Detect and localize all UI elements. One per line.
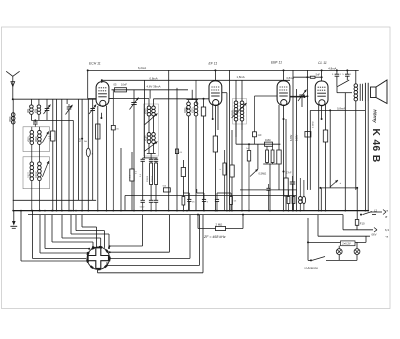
wire gang out right 1: [108, 215, 142, 248]
wire gang feed 2: [31, 211, 33, 259]
wire V3 pins: [278, 105, 280, 114]
wire V1 top cap: [101, 80, 103, 83]
coil T2 primary: [234, 80, 238, 121]
resistor R17 under V3: [277, 114, 281, 190]
capacitor C10 1nF: [253, 96, 263, 144]
coil L3a: [30, 127, 34, 152]
wire gang out right 4: [107, 215, 200, 266]
resistor R21 2M: [197, 214, 244, 231]
svg-text:30000: 30000: [147, 175, 149, 182]
wire V2 screen right: [222, 92, 227, 94]
IF transformer T1 can: [144, 104, 159, 156]
antenna symbol: [6, 71, 19, 99]
coil L5 osc primary: [186, 100, 191, 211]
wire osc bracket: [187, 99, 199, 101]
svg-text:(035): (035): [193, 107, 195, 113]
wire gang step 1: [40, 215, 89, 254]
wire gang step 6: [76, 215, 105, 248]
svg-text:0,35V: 0,35V: [296, 134, 299, 141]
trimmer T2 arrow: [232, 103, 247, 118]
svg-text:–a: –a: [385, 235, 389, 239]
wire V2 top: [214, 70, 216, 80]
trimmer C12: [298, 90, 307, 108]
resistor R7 cathode: [213, 105, 217, 210]
wire mid rail 0: [120, 148, 122, 211]
node antenna junction: [12, 98, 14, 100]
switch tone: [337, 80, 349, 87]
capacitor C8c: [154, 158, 158, 161]
wire top line 3: [112, 89, 189, 91]
wire V3 grid left: [255, 95, 278, 97]
wire T1 to V2 grid: [154, 98, 210, 100]
wire V2 grid left: [196, 99, 198, 105]
trimmer C2b: [66, 99, 73, 210]
capacitor C6 coupling: [115, 88, 127, 92]
svg-text:06V: 06V: [372, 232, 377, 236]
svg-text:0,3MΩ: 0,3MΩ: [313, 121, 315, 128]
wire bridge 3: [217, 192, 231, 194]
ground symbol: [10, 211, 17, 229]
wire under R9 R10: [263, 163, 276, 165]
resistor R3b: [175, 149, 182, 154]
wire mid rail 3: [176, 88, 178, 211]
coil L4b: [38, 152, 42, 211]
svg-text:U-Antenne: U-Antenne: [305, 266, 319, 270]
transformer T3 core: [359, 84, 361, 101]
resistor R20b: [302, 180, 305, 211]
capacitor C15 tone: [342, 69, 352, 80]
wire gang step 7: [82, 215, 97, 247]
diode load cluster: [284, 119, 295, 211]
resistor R16b bottom: [230, 193, 237, 211]
resistor R14: [181, 160, 185, 197]
wire gang step 4: [62, 215, 102, 248]
coil T1 tertiary: [147, 133, 151, 144]
wire V1 plate to T1: [109, 98, 149, 100]
svg-text:6,3: 6,3: [385, 228, 389, 232]
svg-text:1,8mA: 1,8mA: [237, 75, 245, 79]
wire left rail: [12, 99, 14, 210]
wire T1 bottoms: [148, 144, 150, 154]
svg-text:(039): (039): [145, 135, 148, 141]
resistor R8 1M: [265, 138, 273, 146]
trimmer C4 row3: [42, 161, 48, 177]
wire gang step 2: [45, 215, 90, 250]
wire top line 2: [101, 79, 290, 81]
wire V1 pins: [97, 106, 99, 211]
lamp label box: [341, 241, 356, 246]
capacitor C9a bottom: [149, 200, 153, 210]
resistor R18 grid: [305, 132, 311, 138]
terminal L2: [370, 208, 386, 214]
wire AVC line: [240, 189, 297, 191]
svg-text:(080): (080): [9, 116, 12, 122]
capacitor C10b: [246, 143, 251, 210]
resistor R1: [50, 99, 55, 210]
wire V4 top: [321, 70, 323, 80]
capacitor C14 tone: [332, 69, 342, 86]
capacitor C13: [293, 76, 322, 78]
tube V2 EF11: [209, 81, 222, 106]
IF transformer T2 can: [233, 99, 247, 125]
fuse F10: [355, 220, 365, 230]
capacitor C11b bottom: [202, 193, 209, 211]
resistor R14b bottom: [182, 197, 185, 211]
trimmer T1 arrow: [145, 114, 158, 125]
node rail 82 junction: [81, 138, 83, 140]
svg-text:1nF: 1nF: [258, 134, 263, 137]
switch mains: [360, 212, 376, 216]
svg-text:Hörny: Hörny: [372, 109, 377, 123]
wire bridge 1: [183, 192, 189, 194]
wire mid rail 5: [292, 70, 294, 210]
resistor R4: [150, 161, 153, 200]
lamp La2: [354, 242, 360, 260]
svg-text:1MΩ: 1MΩ: [265, 138, 271, 142]
svg-text:–a: –a: [385, 208, 389, 212]
capacitor C8b: [149, 158, 153, 161]
wire 6.3V line: [343, 215, 377, 232]
wire chassis bus upper: [14, 210, 369, 212]
resistor R6b on AVC line: [163, 186, 171, 192]
coil L7 heater: [299, 178, 303, 211]
resistor R20: [292, 196, 295, 211]
switch antenna: [308, 257, 325, 262]
svg-text:0,8mA: 0,8mA: [337, 106, 345, 110]
svg-text:6,2mA: 6,2mA: [138, 66, 146, 70]
wire left bottom link: [13, 199, 96, 201]
wire rail 56: [56, 99, 58, 210]
trimmer C7 osc: [130, 90, 139, 211]
coil T1 primary: [147, 99, 151, 116]
wire AVC line 2: [125, 195, 296, 197]
wire speaker return: [310, 109, 365, 111]
svg-text:EBF 11: EBF 11: [271, 61, 282, 65]
wire mid rail 1: [143, 80, 145, 158]
svg-text:27nF: 27nF: [286, 172, 292, 175]
svg-text:(082): (082): [28, 136, 31, 142]
svg-text:5nF: 5nF: [316, 73, 321, 76]
capacitor C11c bottom: [215, 193, 219, 211]
wire V3 plate link: [290, 95, 307, 97]
tube V4 ECL11: [315, 81, 328, 106]
coil L5 osc secondary: [194, 100, 198, 211]
resistor R16c: [223, 150, 226, 211]
coil L3b: [38, 127, 42, 152]
wire V4 pins: [321, 106, 323, 119]
svg-text:(036): (036): [185, 107, 187, 113]
wire gang out right 2: [109, 215, 170, 254]
trimmer C3: [89, 99, 96, 200]
capacitor C5 row1: [33, 122, 38, 127]
svg-text:F10: F10: [360, 222, 365, 226]
wire V3 top: [283, 70, 285, 81]
wire gang out bottom: [98, 215, 204, 273]
svg-text:ECH 11: ECH 11: [89, 62, 101, 66]
wire rail 73: [72, 120, 74, 210]
wire gang step 3: [52, 215, 94, 248]
resistor R16: [230, 130, 234, 211]
wire V3 right coupling: [290, 96, 302, 98]
wire W link: [319, 187, 358, 220]
speaker: [365, 80, 387, 104]
svg-text:gr: gr: [385, 215, 388, 219]
svg-text:ZF = 468 kHz: ZF = 468 kHz: [203, 235, 226, 239]
resistor R3c: [130, 152, 135, 211]
svg-text:10012: 10012: [36, 171, 38, 178]
wire rail 82: [81, 99, 83, 210]
svg-text:(040): (040): [145, 108, 148, 114]
tuning gang capacitor: [87, 247, 109, 269]
resistor R9: [266, 146, 269, 162]
tube V1 ECH11: [96, 82, 109, 107]
wire V4 cathode R: [323, 105, 327, 211]
trimmer C2 row2: [42, 131, 48, 142]
resistor R2 under V1: [96, 124, 100, 139]
trimmer C1: [44, 99, 51, 120]
svg-text:0,5MΩ: 0,5MΩ: [259, 171, 267, 175]
svg-text:4,8mA: 4,8mA: [328, 67, 336, 71]
svg-text:6,35V: 6,35V: [290, 134, 293, 141]
wire lamp bottom: [326, 259, 357, 261]
wire gang step 5: [71, 215, 110, 249]
svg-text:CL 11: CL 11: [318, 61, 327, 65]
svg-text:K 46 B: K 46 B: [370, 129, 381, 163]
wire rail 78: [78, 99, 80, 200]
svg-text:(08): (08): [27, 109, 30, 113]
wire bridge 2: [197, 192, 204, 194]
capacitor C8a: [141, 158, 145, 200]
svg-text:(083): (083): [35, 136, 38, 142]
resistor R5: [155, 161, 158, 200]
wire chassis bus lower: [28, 214, 343, 216]
svg-text:EF 11: EF 11: [209, 62, 218, 66]
wire V4 grid rail: [306, 70, 308, 189]
svg-text:10nF: 10nF: [121, 82, 127, 86]
wire V2 pins: [212, 105, 214, 120]
svg-text:2 MΩ: 2 MΩ: [216, 222, 223, 226]
wire V1 grid left: [88, 98, 96, 100]
wire detector line: [236, 143, 280, 145]
svg-text:4,6V·38mA: 4,6V·38mA: [147, 84, 161, 88]
wire row1 bottom: [31, 119, 73, 121]
wire T2 to detector: [235, 121, 237, 144]
svg-text:38000: 38000: [152, 175, 154, 182]
wire 0.6V line: [318, 215, 370, 237]
lamp La1: [336, 246, 342, 261]
capacitor C9b bottom: [154, 200, 158, 210]
svg-text:L2: L2: [374, 208, 378, 212]
wire IF1 bottom link: [143, 157, 158, 159]
coil L4a: [30, 152, 34, 211]
coil T1 quaternary: [152, 133, 156, 144]
coil T2 secondary: [240, 80, 244, 121]
svg-text:(033): (033): [231, 110, 235, 116]
potentiometer volume: [250, 144, 266, 176]
coil T1 secondary: [152, 99, 156, 116]
svg-text:0,8mA: 0,8mA: [150, 77, 158, 81]
label 27nF: [283, 171, 285, 173]
bandfilter can 2: [23, 127, 50, 152]
wire mid rail 6: [296, 89, 298, 211]
resistor R6: [201, 98, 205, 211]
wire left section top: [13, 98, 96, 100]
capacitor C10c: [266, 184, 270, 211]
wire gang feed 1: [20, 211, 22, 261]
switch W: [329, 109, 341, 187]
node bus junctions: [12, 210, 369, 212]
wire gang out right 3: [109, 215, 190, 260]
svg-text:10011: 10011: [29, 171, 31, 178]
wire rail 62: [61, 99, 63, 210]
wire B+ rail: [344, 93, 346, 211]
trimmer T1b arrow: [145, 142, 158, 152]
capacitor C11a bottom: [187, 193, 195, 211]
bandfilter can 3: [23, 157, 50, 189]
wire T2 bottoms: [235, 121, 237, 137]
wire mid rail 4: [229, 70, 231, 210]
coil L2b: [37, 99, 41, 120]
wire mid rail 2: [168, 70, 170, 210]
wire lamp feed: [307, 218, 366, 260]
resistor R10: [271, 146, 274, 162]
coil L2a: [30, 99, 34, 120]
capacitor C9c bottom: [140, 200, 145, 210]
wire rail 88 oval: [86, 99, 93, 210]
wire top line 1: [88, 69, 359, 71]
svg-text:(08): (08): [35, 109, 38, 113]
transformer T3 primary: [354, 84, 358, 190]
resistor R3box: [111, 90, 119, 211]
wire top line to output: [355, 70, 357, 83]
coil L1 antenna: [11, 113, 15, 124]
tube V3 EBF11: [277, 81, 290, 106]
resistor R19: [287, 190, 290, 211]
wire T1 mid links: [148, 116, 150, 133]
svg-text:2×6,3V: 2×6,3V: [342, 242, 351, 246]
